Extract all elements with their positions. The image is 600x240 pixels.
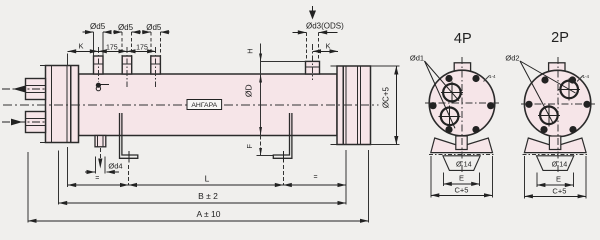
svg-text:2P: 2P <box>551 30 569 46</box>
svg-text:1-4: 1-4 <box>489 74 496 79</box>
svg-text:K: K <box>325 41 330 50</box>
svg-text:A ± 10: A ± 10 <box>196 209 220 219</box>
svg-text:E: E <box>556 175 561 184</box>
svg-text:Ød5: Ød5 <box>90 22 106 31</box>
svg-text:ØC+5: ØC+5 <box>381 86 390 108</box>
svg-text:C+5: C+5 <box>455 186 469 195</box>
svg-text:L: L <box>205 174 210 184</box>
svg-text:Ød3(ODS): Ød3(ODS) <box>306 21 344 30</box>
svg-text:Ød2: Ød2 <box>505 53 519 62</box>
svg-text:F: F <box>245 144 254 149</box>
svg-text:ØD: ØD <box>244 84 254 97</box>
svg-text:E: E <box>459 174 464 183</box>
svg-text:Ød5: Ød5 <box>146 23 162 32</box>
svg-text:175: 175 <box>136 44 148 51</box>
svg-text:Ød5: Ød5 <box>118 23 134 32</box>
svg-text:1-4: 1-4 <box>583 74 590 79</box>
svg-text:Ø 14: Ø 14 <box>456 159 472 168</box>
svg-text:K: K <box>78 42 83 51</box>
svg-text:=: = <box>313 174 317 181</box>
svg-text:B ± 2: B ± 2 <box>198 191 218 201</box>
svg-text:Ød4: Ød4 <box>108 161 122 170</box>
svg-text:Ø 14: Ø 14 <box>552 159 568 168</box>
svg-text:Ød1: Ød1 <box>410 53 424 62</box>
svg-text:175: 175 <box>106 44 118 51</box>
svg-text:C+5: C+5 <box>552 187 566 196</box>
svg-text:=: = <box>95 175 99 182</box>
svg-text:АНГАРА: АНГАРА <box>191 102 217 109</box>
svg-text:4P: 4P <box>454 31 472 47</box>
svg-text:H: H <box>246 48 255 53</box>
